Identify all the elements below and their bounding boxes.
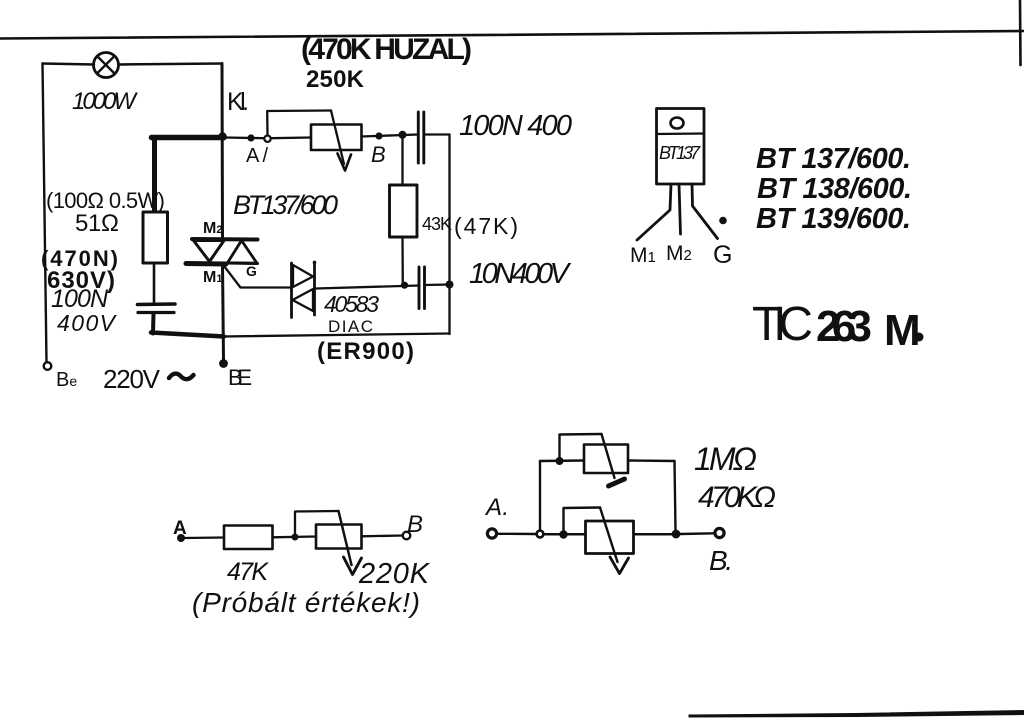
wire right rail vertical [448, 135, 450, 335]
wire left rail vertical [43, 64, 47, 363]
pot 1M wiper [602, 434, 615, 478]
svg-text:220V: 220V [103, 364, 161, 394]
wire bottom run frag2 [544, 533, 677, 536]
wire 470K wiper bypass [564, 508, 601, 531]
TO-220 tab divider [657, 132, 705, 135]
capacitor 100N 400 plates [417, 112, 420, 163]
TO-220 package outline [657, 109, 705, 185]
wire 220K to B [362, 534, 404, 537]
svg-text:B: B [371, 142, 386, 167]
svg-text:M1: M1 [630, 244, 656, 267]
page top border line [0, 31, 1024, 39]
wire lamp to Kl [119, 64, 223, 65]
wire A to 47K [184, 536, 224, 539]
bullet dot [719, 217, 727, 225]
svg-text:51Ω: 51Ω [75, 210, 119, 237]
svg-text:47K: 47K [227, 558, 269, 586]
node Kl junction [218, 132, 226, 140]
wire pot wiper bypass [267, 111, 331, 136]
potentiometer 470K body [586, 521, 634, 554]
svg-text:M: M [884, 306, 921, 355]
svg-text:220K: 220K [358, 558, 431, 590]
page right border segment [1019, 0, 1022, 65]
wire 10N to right rail [425, 283, 450, 286]
svg-text:10N400V: 10N400V [469, 258, 572, 290]
svg-text:Be: Be [56, 369, 77, 391]
wire diac to 10N cap [316, 286, 419, 289]
TO-220 pin M1 lead [637, 184, 671, 240]
pot 250K wiper arrow [331, 111, 344, 165]
wire gate to diac [224, 266, 292, 288]
wire A to pot [271, 136, 311, 139]
node B (dot) [375, 132, 382, 139]
terminal B frag1 (open) [403, 532, 411, 540]
potentiometer 250K body [311, 125, 362, 151]
wire 220K wiper bypass [295, 511, 339, 537]
terminal BE (dot) [219, 359, 228, 368]
resistor 47K [224, 526, 273, 550]
wire bottom rail [222, 334, 450, 337]
wire Kl to A [225, 136, 264, 139]
wire node to 43K [401, 136, 403, 185]
pot 220K wiper arrow [339, 511, 352, 565]
svg-text:BE: BE [228, 365, 252, 390]
TO-220 pin G lead [692, 184, 718, 239]
wire resistor to cap [153, 263, 156, 303]
svg-text:TIC: TIC [752, 298, 813, 351]
potentiometer 220K body [316, 525, 362, 549]
wire Kl main vertical [222, 64, 224, 361]
wire thick branch horizontal [152, 135, 225, 141]
svg-text:BT 138/600.: BT 138/600. [757, 173, 912, 205]
svg-text:G: G [246, 263, 257, 279]
svg-text:43K: 43K [422, 214, 452, 234]
node A (dot) [247, 134, 254, 141]
wire 1M pot to right [628, 459, 675, 462]
svg-text:A: A [173, 518, 187, 539]
capacitor 100N 400V plates [138, 302, 176, 306]
triac BT137/600 symbol [192, 237, 258, 242]
lamp 1000W [94, 53, 119, 78]
wire pot to node B [362, 135, 419, 137]
node wiper junction (dot) [292, 534, 299, 541]
node ring frag2 [537, 531, 544, 538]
svg-text:BT137/600: BT137/600 [233, 190, 338, 220]
wire 43K to lower node [401, 237, 404, 285]
svg-text:G: G [713, 241, 732, 269]
svg-text:B.: B. [709, 545, 733, 576]
svg-text:M2: M2 [203, 220, 222, 237]
svg-text:A.: A. [484, 494, 509, 521]
svg-text:A /: A / [246, 145, 268, 167]
node cap/43K junction (dot) [399, 131, 407, 139]
svg-text:Kl.: Kl. [227, 88, 249, 116]
tilde 220V AC symbol [169, 374, 194, 380]
wire thick bottom-left [151, 333, 224, 337]
wire up branch vertical [539, 461, 541, 531]
terminal A frag1 (dot) [177, 534, 185, 542]
wire A to node [497, 533, 537, 536]
wire 1M pot wiper bypass [560, 434, 602, 461]
svg-text:40583: 40583 [324, 291, 379, 317]
wire 47K to 220K [273, 535, 317, 538]
resistor 51R (100R 0.5W) [143, 212, 168, 263]
page bottom-right border line [689, 711, 1024, 718]
capacitor 10N 400V plates [418, 267, 421, 309]
svg-text:1MΩ: 1MΩ [694, 441, 757, 477]
potentiometer 1M body [584, 445, 628, 474]
resistor 43K (47K) [390, 185, 418, 237]
wire thick branch vertical [152, 139, 157, 213]
svg-text:BT137: BT137 [659, 143, 701, 163]
wire right branch vertical [675, 461, 676, 530]
svg-text:100N: 100N [51, 285, 109, 313]
TO-220 pin M2 lead [679, 184, 681, 234]
node right-rail 10N junction (dot) [446, 281, 454, 289]
svg-text:250K: 250K [306, 66, 365, 93]
svg-text:(470K HUZAL): (470K HUZAL) [301, 33, 472, 66]
svg-text:400V: 400V [57, 310, 118, 336]
svg-text:263: 263 [816, 302, 872, 351]
svg-text:1000W: 1000W [72, 88, 138, 115]
svg-text:BT 139/600.: BT 139/600. [756, 203, 911, 235]
terminal A frag2 (open) [487, 529, 496, 538]
svg-text:DIAC: DIAC [328, 317, 373, 336]
terminal Be (open) [44, 362, 52, 370]
wire cap to bottom [151, 313, 156, 334]
svg-text:(Próbált értékek!): (Próbált értékek!) [192, 587, 420, 618]
svg-text:470KΩ: 470KΩ [698, 481, 776, 514]
terminal B frag2 (open) [715, 528, 724, 537]
svg-text:M2: M2 [666, 242, 692, 265]
node right junction (dot) [672, 530, 681, 539]
TO-220 mounting hole [671, 118, 684, 129]
svg-text:BT 137/600.: BT 137/600. [756, 143, 911, 175]
pot 470K wiper arrow [600, 508, 618, 563]
node 43K/10N junction (dot) [401, 282, 408, 289]
diac 40583 (ER900) [290, 263, 293, 318]
wire node to B frag2 [680, 532, 715, 535]
wire cap to right rail [424, 133, 450, 135]
terminal A wiper tap (open) [264, 136, 270, 142]
svg-text:(ER900): (ER900) [317, 338, 414, 365]
node upper bypass (dot) [556, 457, 564, 465]
svg-text:M1: M1 [203, 269, 222, 286]
wire up branch horizontal [540, 459, 584, 462]
svg-text:100N 400: 100N 400 [459, 110, 572, 142]
svg-text:B: B [407, 511, 423, 538]
node lower bypass (dot) [559, 530, 567, 538]
svg-text:(47K): (47K) [454, 213, 518, 239]
wire left rail top [43, 64, 95, 65]
